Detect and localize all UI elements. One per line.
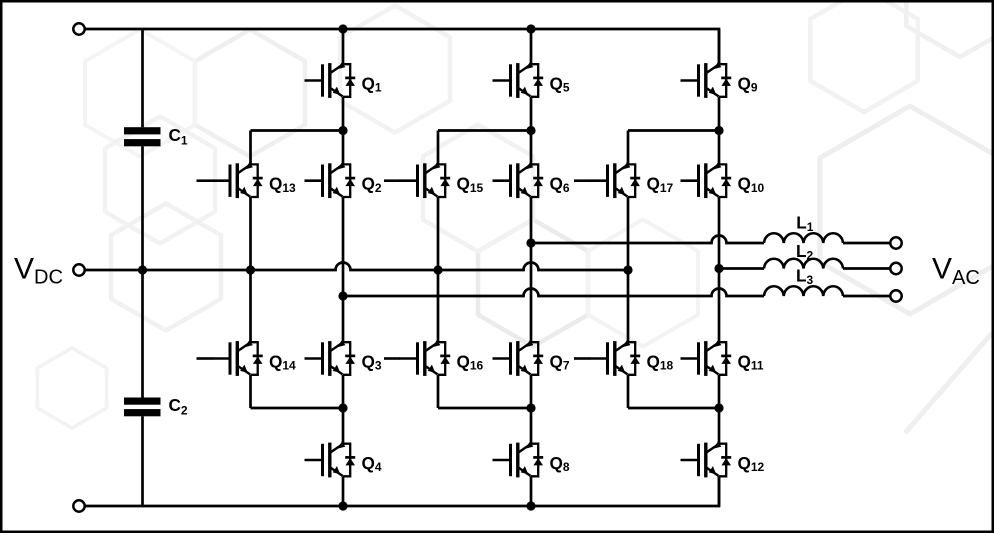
transistor Q1 (IGBT with antiparallel diode) — [305, 62, 356, 98]
node leg1 upper clamp — [338, 126, 347, 135]
node leg3 lower clamp — [714, 403, 723, 412]
node leg3 phase — [714, 264, 723, 273]
wire phase-1 line to L3 — [343, 289, 764, 297]
wire clamp2 lower vertical — [437, 375, 440, 408]
wire phase-3 line to L2 — [719, 267, 764, 270]
wire DC+ top rail — [85, 29, 720, 64]
wire L3 to terminal — [843, 295, 891, 298]
wire leg3 Q9 to Q10 — [718, 97, 721, 165]
node DC- leg2 — [526, 501, 535, 510]
node leg1 phase — [338, 291, 347, 300]
node leg2 lower clamp — [526, 403, 535, 412]
transistor Q7 (IGBT with antiparallel diode) — [493, 340, 544, 376]
wire clamp1 upper vertical — [249, 131, 252, 165]
wire phase-2 line to L1 — [531, 236, 764, 243]
wire clamp1 lower vertical — [249, 375, 252, 408]
terminal DC- input — [73, 500, 84, 511]
node DC- leg1 — [338, 501, 347, 510]
terminal AC phase 1 — [890, 237, 901, 248]
node clamp3 midpoint — [623, 265, 632, 274]
terminal DC+ input — [73, 23, 84, 34]
node DC+ leg1 — [338, 24, 347, 33]
node clamp2 midpoint — [433, 265, 442, 274]
node leg3 upper clamp — [714, 126, 723, 135]
wire leg1 rail to Q1 — [342, 29, 345, 64]
capacitor C1 — [124, 127, 161, 146]
wire clamp3 upper vertical — [627, 131, 630, 165]
background hexagon pattern — [37, 0, 994, 433]
terminal AC phase 3 — [890, 290, 901, 301]
node leg1 lower clamp — [338, 403, 347, 412]
transistor Q9 (IGBT with antiparallel diode) — [681, 62, 732, 98]
transistor Q14 (IGBT with antiparallel diode) — [197, 340, 263, 376]
wire clamp2 mid vertical — [437, 197, 440, 342]
wire C1-C2 middle — [141, 146, 144, 397]
wire leg1 Q1 to Q2 — [342, 97, 345, 165]
wire leg2 phase vertical — [530, 197, 533, 342]
capacitor C2 — [124, 398, 161, 417]
transistor Q4 (IGBT with antiparallel diode) — [305, 442, 356, 478]
node DC+ leg2 — [526, 24, 535, 33]
wire leg1 top clamp link — [251, 129, 344, 132]
transistor Q5 (IGBT with antiparallel diode) — [493, 62, 544, 98]
wire C1 top — [141, 29, 144, 127]
node leg2 upper clamp — [526, 126, 535, 135]
wire leg3 Q12 to rail — [718, 476, 721, 506]
transistor Q10 (IGBT with antiparallel diode) — [681, 163, 732, 199]
wire leg1 phase vertical — [342, 197, 345, 342]
wire leg2 Q8 to rail — [530, 476, 533, 506]
transistor Q11 (IGBT with antiparallel diode) — [681, 340, 732, 376]
wire leg3 top clamp link — [628, 129, 719, 132]
wire leg2 top clamp link — [438, 129, 531, 132]
terminal AC phase 2 — [890, 263, 901, 274]
wire leg2 Q7 to Q8 — [530, 375, 533, 444]
wire leg2 Q5 to Q6 — [530, 97, 533, 165]
wire DC midpoint line with hops — [85, 263, 629, 271]
wire clamp2 upper vertical — [437, 131, 440, 165]
transistor Q13 (IGBT with antiparallel diode) — [197, 163, 263, 199]
wire clamp3 mid vertical — [627, 197, 630, 342]
wire clamp3 lower vertical — [627, 375, 630, 408]
node leg2 phase — [526, 238, 535, 247]
inductor L3 coils — [764, 286, 843, 296]
transistor Q15 (IGBT with antiparallel diode) — [384, 163, 450, 199]
wire clamp1 mid vertical — [249, 197, 252, 342]
wire leg1 Q3 to Q4 — [342, 375, 345, 444]
transistor Q17 (IGBT with antiparallel diode) — [574, 163, 640, 199]
wire leg2 rail to Q5 — [530, 29, 533, 64]
wire leg2 bottom clamp link — [438, 407, 531, 410]
transistor Q3 (IGBT with antiparallel diode) — [305, 340, 356, 376]
inductor L2 coils — [764, 259, 843, 269]
wire leg3 phase vertical — [718, 197, 721, 342]
wire L2 to terminal — [843, 267, 891, 270]
node cap midpoint — [138, 265, 147, 274]
wire leg1 Q4 to rail — [342, 476, 345, 506]
wire leg3 rail to Q9 — [718, 29, 721, 64]
node clamp1 midpoint — [246, 265, 255, 274]
transistor Q16 (IGBT with antiparallel diode) — [384, 340, 450, 376]
wire leg1 bottom clamp link — [251, 407, 344, 410]
wire DC- bottom rail — [85, 476, 720, 506]
transistor Q12 (IGBT with antiparallel diode) — [681, 442, 732, 478]
transistor Q2 (IGBT with antiparallel diode) — [305, 163, 356, 199]
wire leg3 Q11 to Q12 — [718, 375, 721, 444]
wire L1 to terminal — [843, 242, 891, 245]
wire C2 bottom — [141, 416, 144, 506]
transistor Q8 (IGBT with antiparallel diode) — [493, 442, 544, 478]
inductor L1 coils — [764, 233, 843, 243]
transistor Q6 (IGBT with antiparallel diode) — [493, 163, 544, 199]
terminal DC mid input — [73, 264, 84, 275]
wire leg3 bottom clamp link — [628, 407, 719, 410]
transistor Q18 (IGBT with antiparallel diode) — [574, 340, 640, 376]
